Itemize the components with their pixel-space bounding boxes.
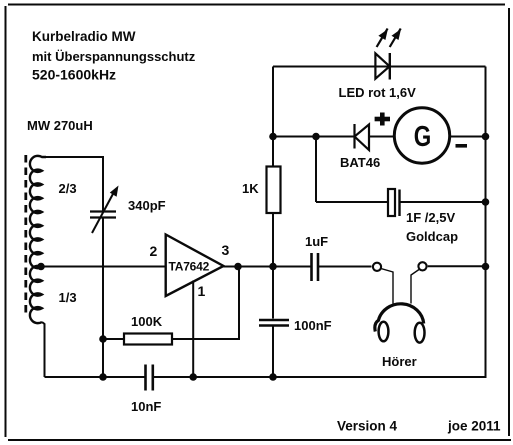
svg-text:Version 4: Version 4 bbox=[337, 419, 398, 434]
svg-text:520-1600kHz: 520-1600kHz bbox=[32, 67, 116, 83]
top rail wire bbox=[273, 66, 486, 68]
svg-text:1F /2,5V: 1F /2,5V bbox=[406, 210, 455, 225]
node pin1 at ground rail bbox=[189, 373, 197, 381]
wire 100K right lead to output node bbox=[172, 267, 239, 340]
node ground rail / tuning branch bbox=[99, 373, 107, 381]
svg-text:100K: 100K bbox=[131, 314, 163, 329]
svg-text:Kurbelradio MW: Kurbelradio MW bbox=[32, 29, 136, 44]
svg-text:1uF: 1uF bbox=[305, 234, 328, 249]
svg-text:3: 3 bbox=[222, 242, 230, 258]
node coil tap junction bbox=[37, 263, 45, 271]
svg-text:2: 2 bbox=[150, 243, 158, 259]
generator meter G bbox=[394, 108, 449, 163]
title text bbox=[32, 29, 196, 83]
wire goldcap left lead bbox=[316, 201, 388, 203]
wire tap to pin 2 bbox=[41, 266, 166, 268]
jack terminal 2 bbox=[418, 262, 426, 270]
plus sign bbox=[375, 113, 390, 126]
IC U1 TA7642 bbox=[166, 235, 224, 297]
capacitor C3 100nF bbox=[259, 320, 289, 326]
svg-text:MW 270uH: MW 270uH bbox=[27, 118, 93, 133]
capacitor C5 Goldcap 1F bbox=[388, 189, 400, 216]
wire jack terminal 2 to headphone bbox=[411, 270, 419, 304]
wire jack terminal 2 to right rail bbox=[428, 265, 486, 267]
ferrite core dashed line bbox=[24, 155, 27, 317]
svg-text:2/3: 2/3 bbox=[59, 181, 77, 196]
inductor L1 coil MW 270uH bbox=[30, 156, 46, 323]
node supply/ground junction bbox=[269, 373, 277, 381]
wire BAT46 to meter bbox=[369, 136, 395, 138]
wire 1uF to jack terminal 1 bbox=[318, 266, 372, 268]
node middle rail right bbox=[482, 133, 490, 141]
wire coil bottom elbow to ground rail bbox=[42, 322, 45, 377]
svg-text:mit Überspannungsschutz: mit Überspannungsschutz bbox=[32, 49, 196, 64]
wire pin 1 down to ground rail bbox=[192, 281, 194, 378]
LED light arrows bbox=[377, 29, 401, 48]
node output right rail bbox=[482, 263, 490, 271]
svg-text:TA7642: TA7642 bbox=[169, 260, 210, 274]
variable capacitor C1 340pF bbox=[90, 192, 116, 233]
LED D2 red bbox=[375, 53, 389, 80]
svg-text:1: 1 bbox=[198, 283, 206, 299]
resistor R1 1K bbox=[267, 167, 281, 214]
capacitor C2 10nF bbox=[146, 365, 153, 391]
wire goldcap right lead bbox=[400, 201, 486, 203]
wire 100K node down to ground rail bbox=[102, 339, 104, 377]
minus sign bbox=[456, 144, 468, 148]
svg-text:Goldcap: Goldcap bbox=[406, 229, 458, 244]
wire jack terminal 1 to headphone bbox=[381, 269, 393, 304]
svg-text:1K: 1K bbox=[242, 181, 259, 196]
wire tuning cap bottom to 100K node bbox=[102, 218, 104, 340]
wire meter to right rail bbox=[450, 136, 486, 138]
capacitor C4 1uF bbox=[312, 253, 319, 281]
node supply/middle rail junction bbox=[269, 133, 277, 141]
wire coil top to tuning cap branch bbox=[42, 157, 103, 211]
diode D1 BAT46 bbox=[355, 124, 370, 150]
svg-text:Hörer: Hörer bbox=[382, 354, 417, 369]
wire 100K left lead bbox=[103, 338, 124, 340]
supply vertical wire at x=273 bbox=[272, 67, 274, 167]
ground rail wire (bottom) bbox=[45, 376, 145, 378]
svg-text:10nF: 10nF bbox=[131, 399, 161, 414]
svg-text:G: G bbox=[414, 121, 432, 153]
node output junction bbox=[234, 263, 242, 271]
wire goldcap branch vertical bbox=[315, 137, 317, 203]
svg-text:joe 2011: joe 2011 bbox=[447, 419, 501, 434]
output wire pin3 node to 1uF bbox=[238, 266, 311, 268]
svg-text:100nF: 100nF bbox=[294, 318, 332, 333]
headphones symbol bbox=[375, 304, 425, 343]
right rail vertical wire bbox=[485, 67, 487, 378]
svg-text:340pF: 340pF bbox=[128, 198, 166, 213]
node goldcap right bbox=[482, 198, 490, 206]
svg-text:LED rot 1,6V: LED rot 1,6V bbox=[339, 85, 417, 100]
node 100K left junction bbox=[99, 335, 107, 343]
resistor R2 100K bbox=[124, 334, 172, 345]
jack terminal 1 bbox=[373, 263, 381, 271]
node supply/output junction bbox=[269, 263, 277, 271]
middle rail wire left bbox=[273, 136, 354, 138]
node goldcap branch top bbox=[312, 133, 320, 141]
svg-text:1/3: 1/3 bbox=[59, 290, 77, 305]
svg-text:BAT46: BAT46 bbox=[340, 155, 380, 170]
wire pin 3 to output node bbox=[223, 266, 238, 268]
